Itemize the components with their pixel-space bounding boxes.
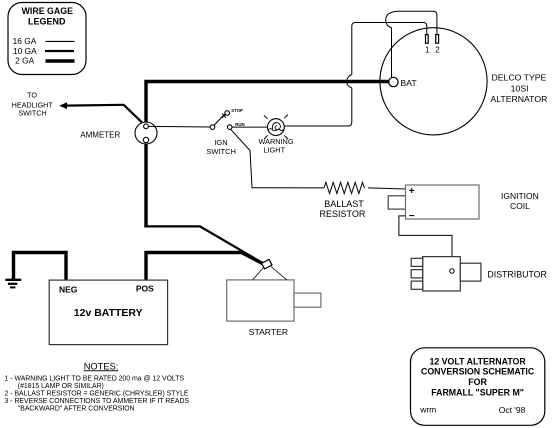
svg-text:POS: POS <box>136 283 154 293</box>
svg-text:Oct '98: Oct '98 <box>499 405 526 415</box>
svg-text:FOR: FOR <box>468 377 487 387</box>
wire warning light to alternator terminal 1 <box>284 88 352 126</box>
svg-text:2 GA: 2 GA <box>15 55 34 65</box>
starter stud lead left <box>253 268 264 280</box>
wire run contact to warning light <box>232 126 268 128</box>
svg-text:DELCO TYPE: DELCO TYPE <box>491 73 546 83</box>
svg-text:IGNITION: IGNITION <box>501 191 539 201</box>
svg-text:+: + <box>409 186 415 197</box>
svg-text:SWITCH: SWITCH <box>18 109 46 118</box>
svg-text:12 VOLT ALTERNATOR: 12 VOLT ALTERNATOR <box>429 356 526 366</box>
wire 10GA ammeter to starter stud <box>144 226 266 265</box>
svg-text:DISTRIBUTOR: DISTRIBUTOR <box>487 269 546 279</box>
svg-text:1: 1 <box>425 46 430 55</box>
svg-text:TO: TO <box>27 91 37 100</box>
wire terminal 1 upper run <box>352 23 427 75</box>
notes <box>5 361 190 412</box>
legend 16 GA sample line <box>46 40 75 42</box>
distributor pin 2 <box>411 270 423 278</box>
svg-text:STARTER: STARTER <box>249 327 288 337</box>
ignition coil bracket <box>388 196 406 209</box>
warning light <box>264 115 288 139</box>
ground <box>5 280 21 288</box>
svg-text:12v BATTERY: 12v BATTERY <box>74 307 143 319</box>
ignition coil label <box>501 191 539 211</box>
distributor body <box>423 257 461 291</box>
starter body <box>227 280 294 321</box>
svg-text:SWITCH: SWITCH <box>206 147 236 156</box>
starter terminal stud <box>262 259 272 269</box>
wire ballast resistor to coil plus <box>368 188 406 189</box>
svg-text:wrm: wrm <box>419 405 436 415</box>
ignition coil <box>406 185 480 219</box>
alternator BAT terminal <box>389 77 398 86</box>
legend 10 GA sample line <box>45 50 74 52</box>
node TO HEADLIGHT SWITCH label <box>12 91 54 118</box>
legend 2 GA sample line <box>46 59 75 62</box>
svg-text:BAT: BAT <box>400 78 417 88</box>
svg-text:RESISTOR: RESISTOR <box>319 209 365 219</box>
svg-text:CONVERSION SCHEMATIC: CONVERSION SCHEMATIC <box>421 367 535 377</box>
svg-text:STOP: STOP <box>231 108 243 113</box>
svg-text:NOTES:: NOTES: <box>84 361 119 371</box>
warning light label <box>259 137 294 154</box>
svg-text:ALTERNATOR: ALTERNATOR <box>490 94 547 104</box>
svg-text:COIL: COIL <box>510 201 530 211</box>
svg-text:WIRE GAGE: WIRE GAGE <box>22 6 73 16</box>
svg-text:2: 2 <box>435 46 440 55</box>
alternator terminal 1 <box>426 35 429 44</box>
wire 2GA ammeter down leg <box>144 143 147 228</box>
wire 16GA ammeter to ign switch <box>149 125 211 128</box>
distributor pin 1 <box>411 258 423 266</box>
ballast resistor label <box>319 199 365 219</box>
title block <box>411 348 545 426</box>
alternator label <box>490 73 547 104</box>
svg-text:3 - REVERSE CONNECTIONS TO AMM: 3 - REVERSE CONNECTIONS TO AMMETER IF IT… <box>5 398 190 405</box>
distributor terminal <box>450 269 454 273</box>
ballast resistor <box>324 182 364 193</box>
wire 2GA battery POS to starter stud <box>146 253 267 282</box>
alternator terminal 2 <box>436 35 439 44</box>
svg-text:2 - BALLAST RESISTOR = GENERIC: 2 - BALLAST RESISTOR = GENERIC (CHRYSLER… <box>5 391 189 398</box>
wire terminal 2 to BAT with hop <box>386 11 437 77</box>
svg-text:BALLAST: BALLAST <box>324 199 364 209</box>
distributor cap lobe <box>460 263 481 281</box>
svg-text:10SI: 10SI <box>511 83 529 93</box>
wire coil minus to distributor <box>399 216 452 269</box>
wire hop over 2GA battery wire <box>347 75 352 88</box>
arrowhead toward headlight switch <box>59 102 67 109</box>
svg-text:(#1815 LAMP OR SIMILAR): (#1815 LAMP OR SIMILAR) <box>18 383 104 390</box>
starter stud lead right <box>271 267 287 280</box>
ign switch label <box>206 138 236 156</box>
alternator body <box>380 28 487 135</box>
svg-text:RUN: RUN <box>235 122 244 127</box>
ammeter <box>135 122 157 144</box>
wire gage legend box <box>8 3 86 75</box>
svg-text:AMMETER: AMMETER <box>80 130 120 139</box>
wire 2GA alternator BAT to ammeter <box>146 82 389 125</box>
svg-text:FARMALL "SUPER M": FARMALL "SUPER M" <box>431 387 524 397</box>
svg-text:LIGHT: LIGHT <box>264 145 286 154</box>
svg-text:−: − <box>409 211 415 222</box>
wire 2GA battery NEG to ground <box>14 253 67 282</box>
wire 10GA ammeter to headlight switch <box>65 104 144 124</box>
svg-text:16 GA: 16 GA <box>13 36 37 46</box>
svg-text:NEG: NEG <box>59 284 78 294</box>
battery <box>49 280 167 345</box>
svg-text:"BACKWARD" AFTER CONVERSION: "BACKWARD" AFTER CONVERSION <box>18 405 135 412</box>
wire run contact to ballast resistor <box>231 129 325 188</box>
starter drive housing <box>294 293 321 307</box>
distributor pin 3 <box>411 281 423 289</box>
ign switch <box>210 111 232 130</box>
svg-text:LEGEND: LEGEND <box>28 17 66 27</box>
svg-text:1 - WARNING LIGHT TO BE RATED: 1 - WARNING LIGHT TO BE RATED 200 ma @ 1… <box>5 376 185 383</box>
